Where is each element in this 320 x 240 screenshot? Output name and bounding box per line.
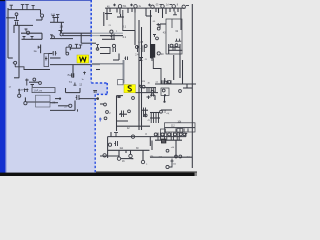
transistor Q9 bubble (69, 45, 72, 48)
transistor M11 ties (75, 44, 82, 48)
transistor Q56 bubble (174, 133, 177, 136)
transistor Q38 bubble (106, 111, 109, 114)
transistor Q63 bubble (179, 133, 182, 136)
wire (100, 155, 119, 157)
wire (81, 42, 96, 44)
wire to border lower (63, 35, 92, 37)
wire (168, 49, 183, 51)
wire (145, 8, 147, 16)
wire (8, 57, 13, 59)
transistor Q51 bubble (129, 154, 132, 157)
transistor Q48 bubble (108, 143, 111, 146)
transistor Q62 bubble (142, 85, 145, 88)
transistor Q29 bubble (157, 52, 160, 55)
svg-text:1.8: 1.8 (60, 24, 64, 28)
transistor Q54 bubble (161, 133, 164, 136)
transistor Q31 bubble (175, 44, 178, 47)
wire (16, 16, 18, 20)
transistor Q25 bubble (182, 5, 185, 8)
wire box C top (117, 95, 124, 97)
transistor M28 fingers (144, 108, 146, 118)
wire (173, 8, 175, 11)
wire (14, 64, 16, 67)
net crossing border upper (92, 32, 124, 34)
wire (150, 94, 155, 96)
transistor M12 (52, 51, 57, 56)
stub (151, 58, 154, 61)
transistor M3 source tie (25, 5, 29, 10)
wire stub (169, 8, 171, 12)
wire (130, 150, 132, 154)
wire (24, 97, 26, 101)
transistor Q61 bubble (96, 48, 99, 51)
wire (180, 8, 182, 30)
wire (50, 102, 58, 104)
transistor M24 fingers (173, 44, 175, 50)
wire (50, 57, 61, 59)
wire (14, 24, 34, 26)
wire (120, 14, 122, 17)
wire (155, 8, 157, 12)
selection border step right (106, 83, 108, 94)
wire (69, 47, 71, 50)
wire (161, 109, 172, 111)
wire stub (158, 8, 160, 13)
wire (164, 78, 166, 85)
wire (74, 101, 76, 111)
wire (27, 101, 51, 103)
feedback box loop (166, 19, 182, 54)
wire (146, 15, 152, 17)
wire (149, 137, 151, 146)
transistor Q13 bubble (69, 104, 72, 107)
selection region (lavender) (0, 0, 108, 176)
net crossing border (92, 63, 124, 65)
selection border step bottom (95, 93, 107, 95)
transistor Q30 bubble (170, 44, 173, 47)
wire (79, 88, 81, 93)
transistor Q35 bubble (135, 46, 138, 49)
transistor M29 (124, 57, 127, 61)
transistor Q33 bubble (168, 81, 171, 84)
transistor Q40 bubble (128, 110, 131, 113)
wire inside X3 (165, 127, 196, 129)
wire (160, 23, 166, 25)
wire (140, 87, 156, 89)
transistor M20 (111, 34, 114, 39)
blue bar highlight edge (5, 1, 6, 173)
transistor Q6 bubble (39, 82, 42, 85)
plus tick (18, 89, 20, 91)
transistor M30 (114, 141, 117, 146)
tick (148, 4, 151, 7)
transistor M23 ties (175, 39, 181, 42)
wire (14, 77, 19, 79)
transistor Q24 bubble (172, 5, 175, 8)
pin dot on border (96, 97, 99, 100)
selection border right upper (90, 0, 92, 82)
symbol cluster (139, 58, 144, 61)
wire long vertical B (141, 27, 143, 130)
component box K3 (161, 129, 166, 133)
wire (159, 24, 161, 28)
junction dot (59, 98, 61, 100)
wire to border upper (63, 32, 92, 34)
component box K1 (44, 54, 49, 67)
transistor M21 gate (157, 23, 161, 26)
dark block U1 (150, 44, 155, 58)
bottom band right fade (195, 173, 198, 176)
wire (135, 92, 158, 94)
wire with jog (15, 67, 50, 70)
transistor Q27 bubble (157, 27, 160, 30)
transistor Q43 bubble (151, 90, 154, 93)
wire (142, 150, 144, 160)
svg-text:1 bF_rm: 1 bF_rm (34, 90, 43, 93)
wire left long (150, 10, 152, 58)
transistor finger row (158, 133, 179, 141)
wire (65, 88, 67, 93)
highlight box W (77, 55, 89, 63)
component box K4 (177, 129, 183, 133)
transistor Q44 bubble (162, 89, 165, 92)
wire (162, 8, 164, 18)
transistor Q49 bubble (103, 154, 106, 157)
wire (113, 59, 119, 61)
wire bottom long (108, 136, 186, 138)
transistor Q8 bubble (52, 36, 55, 39)
wire (40, 45, 42, 54)
wire (40, 10, 42, 14)
transistor Q11 bubble (18, 94, 21, 97)
instance box X2 (36, 95, 51, 107)
wire C-bend (100, 48, 110, 54)
transistor Q36 bubble (144, 45, 147, 48)
wire stub (165, 8, 167, 14)
transistor M25 fingers (113, 48, 116, 52)
wire stub (18, 91, 20, 94)
svg-text:+0(: +0( (166, 113, 169, 115)
transistor Q53 bubble (154, 133, 157, 136)
wire (154, 95, 156, 100)
gray schematic background (0, 0, 197, 176)
wire (29, 81, 39, 83)
wire (150, 156, 192, 158)
wire (96, 69, 100, 71)
wire (21, 32, 42, 34)
transistor Q32 bubble (164, 81, 167, 84)
transistor M9 tie (52, 15, 56, 17)
transistor Q5 bubble (33, 78, 36, 81)
wire (134, 31, 136, 46)
transistor fingers (152, 93, 154, 96)
transistor Q55 bubble (168, 133, 171, 136)
wire bottom rail mid (155, 83, 196, 85)
bottom black band (0, 173, 197, 176)
wire (164, 95, 166, 101)
wire (80, 33, 82, 43)
transistor M2 source tie (21, 5, 25, 10)
wire (117, 96, 122, 98)
transistor Q41 bubble (132, 97, 135, 100)
wire (108, 149, 150, 151)
net crossing border (92, 64, 101, 66)
wire (107, 137, 109, 158)
tick (83, 72, 86, 75)
tick (130, 4, 133, 7)
wire (60, 22, 62, 33)
wire (141, 109, 148, 111)
wire stub (177, 8, 179, 12)
wire box C right (138, 96, 140, 121)
transistor Q4 bubble (14, 61, 17, 64)
junction dot (118, 96, 120, 98)
blue bar top black cap (0, 0, 5, 1)
transistor Q1 bubble (40, 14, 43, 17)
transistor M13 (70, 73, 73, 77)
wire (50, 38, 73, 40)
transistor M8 (25, 79, 28, 86)
wire (36, 19, 42, 21)
transistor M27 (120, 111, 123, 118)
wire (125, 150, 127, 153)
wire (100, 35, 123, 37)
ticks (160, 4, 190, 7)
wire (151, 141, 153, 151)
transistor Q61 gate (96, 45, 99, 48)
transistor Q3 bubble (26, 31, 29, 34)
stub (185, 133, 187, 137)
transistor finger (137, 45, 139, 52)
wire (170, 46, 181, 48)
wire elbow (153, 59, 161, 85)
component box K2 (161, 88, 169, 95)
wire (50, 109, 75, 111)
transistor M14 (24, 88, 29, 92)
transistor Q57 bubble (166, 149, 169, 152)
wire (55, 98, 60, 100)
transistor Q2 bubble (15, 13, 18, 16)
transistor M1 source tie (10, 5, 14, 9)
wire VDD rail left (8, 9, 41, 11)
wire L-bend (123, 10, 135, 31)
transistor Q47 bubble on wire (131, 135, 134, 138)
wire (102, 38, 115, 40)
tie (114, 133, 118, 137)
wire stub (13, 62, 14, 64)
selection border top (5, 0, 92, 2)
transistor Q10 bubble (66, 52, 69, 55)
transistor M10 tie (56, 15, 59, 17)
wire (121, 158, 134, 160)
wire (150, 112, 160, 114)
tick (113, 4, 116, 7)
transistor M6 gate (38, 46, 40, 49)
bottom band shadow right (96, 171, 197, 172)
wire stub (116, 8, 118, 12)
wire (118, 150, 120, 157)
transistor M15 (76, 95, 79, 100)
wire long vertical (18, 25, 20, 77)
wire (22, 38, 43, 40)
transistor Q59 bubble (179, 155, 182, 158)
wire (70, 47, 80, 49)
junction dot (164, 94, 166, 96)
transistor Q37 bubble (104, 103, 107, 106)
ground GND1 (73, 83, 76, 86)
transistor Q23 bubble (161, 5, 164, 8)
dark block U2 (161, 139, 166, 144)
port marker blue (99, 118, 102, 122)
label box white (118, 80, 124, 85)
wire (110, 132, 112, 137)
net under W box (50, 64, 92, 66)
wire (106, 8, 108, 20)
wire stub (109, 8, 111, 12)
wire (41, 33, 43, 39)
transistor M16 ties (93, 90, 97, 93)
wire (175, 141, 177, 158)
wire (119, 113, 127, 115)
transistor M4 (14, 21, 19, 26)
transistor Q58 bubble (175, 155, 178, 158)
transistor Q28 bubble (156, 37, 159, 40)
transistor Q21 bubble (134, 5, 137, 8)
wire stub (131, 8, 133, 12)
svg-text:4.1: 4.1 (123, 35, 127, 39)
wire with stub (169, 159, 173, 168)
wire long vertical A (138, 20, 140, 130)
stub (77, 109, 79, 111)
wire (134, 13, 136, 31)
transistor M5 fingers (23, 37, 34, 40)
wire (179, 44, 181, 78)
net crossing border lower (92, 35, 124, 37)
transistor fingers (147, 88, 155, 93)
wire (117, 120, 129, 122)
wire (58, 105, 69, 107)
wire right edge bus (191, 4, 193, 168)
wire to border (79, 98, 98, 100)
transistor M7 inside box (45, 57, 47, 61)
wire (168, 44, 170, 54)
transistor Q7 gate (59, 31, 63, 33)
pin marks X3 (176, 128, 188, 131)
transistor M22 gate (153, 35, 156, 38)
transistor Q52 bubble (141, 160, 144, 163)
wire (72, 65, 74, 78)
transistor Q50 bubble (117, 157, 120, 160)
wire (118, 54, 120, 61)
wire (50, 21, 64, 23)
transistor Q3 gate (25, 29, 28, 31)
transistor Q20 bubble (118, 5, 121, 8)
wire (183, 87, 192, 89)
transistor Q45 bubble (179, 90, 182, 93)
transistor Q42 bubble (144, 114, 147, 117)
transistor Q26 bubble (110, 30, 113, 33)
wire (6, 17, 16, 19)
wire box C left (116, 96, 118, 131)
wire stub (127, 8, 129, 13)
wire VDD rail right (105, 7, 186, 9)
ground stub (31, 85, 35, 88)
instance box X3 (165, 123, 196, 132)
stub (147, 96, 151, 100)
wire (150, 117, 160, 119)
wire (66, 92, 81, 94)
transistor Q34 bubble (112, 44, 115, 47)
transistor Q7 bubble (60, 33, 63, 36)
transistor M9/M10 drains (53, 18, 59, 23)
thick gray net (123, 60, 125, 84)
instance box X1 (32, 88, 55, 93)
wire (117, 125, 151, 127)
wire (119, 8, 121, 14)
wire (186, 84, 188, 88)
transistor Q64 bubble (183, 133, 186, 136)
wire stub (100, 103, 104, 105)
wire left bus (7, 8, 9, 58)
wire (117, 16, 124, 18)
svg-text:0.1: 0.1 (123, 25, 127, 29)
transistor Q8 gate (50, 35, 53, 36)
wire (134, 8, 136, 12)
wire (41, 17, 43, 20)
transistor Q46 bubble (160, 110, 163, 113)
wire (171, 19, 173, 28)
wire (103, 12, 105, 26)
transistor Q39 bubble (104, 117, 107, 120)
wire (105, 13, 112, 15)
capacitor stack C1 (151, 112, 158, 123)
stub (173, 12, 177, 15)
transistor M26 (141, 45, 144, 52)
transistor fingers (162, 80, 171, 84)
transistor Q22 bubble (151, 5, 154, 8)
junction dot (139, 85, 141, 87)
transistor M3b source tie (32, 5, 35, 9)
left scrollbar blue bar (0, 1, 5, 173)
junction dot (163, 101, 165, 103)
wire (182, 60, 184, 84)
transistor Q12 bubble (24, 102, 27, 105)
wire (173, 55, 175, 80)
wire (49, 53, 52, 55)
selection border step top (91, 82, 107, 84)
wire (155, 139, 182, 141)
transistor Q60 bubble (166, 165, 169, 168)
selection border right lower (94, 94, 96, 173)
wire (13, 25, 15, 33)
highlight box S (124, 85, 135, 93)
wire loop (66, 47, 69, 53)
